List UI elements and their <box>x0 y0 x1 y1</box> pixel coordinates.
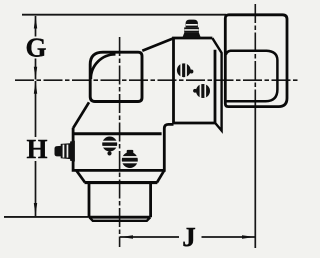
svg-text:H: H <box>26 134 47 164</box>
male end sides <box>89 184 151 217</box>
grease fitting left: body silhouette <box>55 141 75 162</box>
centerline vertical (female end axis) <box>254 4 256 100</box>
flange left chamfer <box>77 171 85 183</box>
female cap inner outline <box>226 51 278 102</box>
male end tip chamfer line <box>90 217 151 220</box>
bottom extension line <box>4 216 89 218</box>
flange bottom face <box>85 181 158 184</box>
grease fitting top: hex band <box>184 27 199 32</box>
elbow body <box>90 52 142 101</box>
grease fitting top: hex slit <box>184 29 198 31</box>
screw plug L2 (lower body, lower-right) <box>122 152 138 168</box>
dimension G arrow down <box>34 67 37 80</box>
lower body outline <box>73 124 173 170</box>
dimension H shaft <box>35 81 37 216</box>
dimension H arrow up <box>34 81 37 94</box>
slant elbow to lower body <box>73 102 89 128</box>
grease fitting left: ring slits <box>63 145 65 158</box>
bearing collar (right of barrel) <box>212 38 221 130</box>
extension line right (female axis extended to J) <box>254 100 256 248</box>
lower body top joint line <box>73 132 162 135</box>
dimension G arrow up <box>34 15 37 28</box>
dimension J arrow left <box>120 235 133 238</box>
grease fitting top: dome slit <box>186 24 198 26</box>
elbow inner bend arc <box>91 54 116 79</box>
screw plug U2 (upper barrel, lower-right) <box>196 84 210 98</box>
centerline horizontal (upper barrel axis) <box>15 79 299 81</box>
dimension H arrow down <box>34 203 37 216</box>
flange right chamfer <box>157 171 164 183</box>
male end bottom face <box>89 216 151 219</box>
svg-text:J: J <box>182 222 196 252</box>
dimension J arrow right <box>242 235 255 238</box>
screw plug U1 (upper barrel, upper-left) <box>177 63 191 77</box>
grease fitting top: base <box>182 32 201 37</box>
shoulder slant elbow to barrel <box>142 38 173 51</box>
svg-text:G: G <box>25 33 46 63</box>
dimension J shaft <box>120 236 255 238</box>
female cap outer <box>225 15 287 107</box>
grease fitting top: dome <box>186 20 198 28</box>
screw plug L1 (lower body, upper-left) <box>102 137 117 152</box>
centerline vertical (male end axis) <box>119 37 121 247</box>
top extension line <box>22 14 226 16</box>
dimension G shaft <box>35 16 37 80</box>
upper barrel block <box>174 38 216 123</box>
